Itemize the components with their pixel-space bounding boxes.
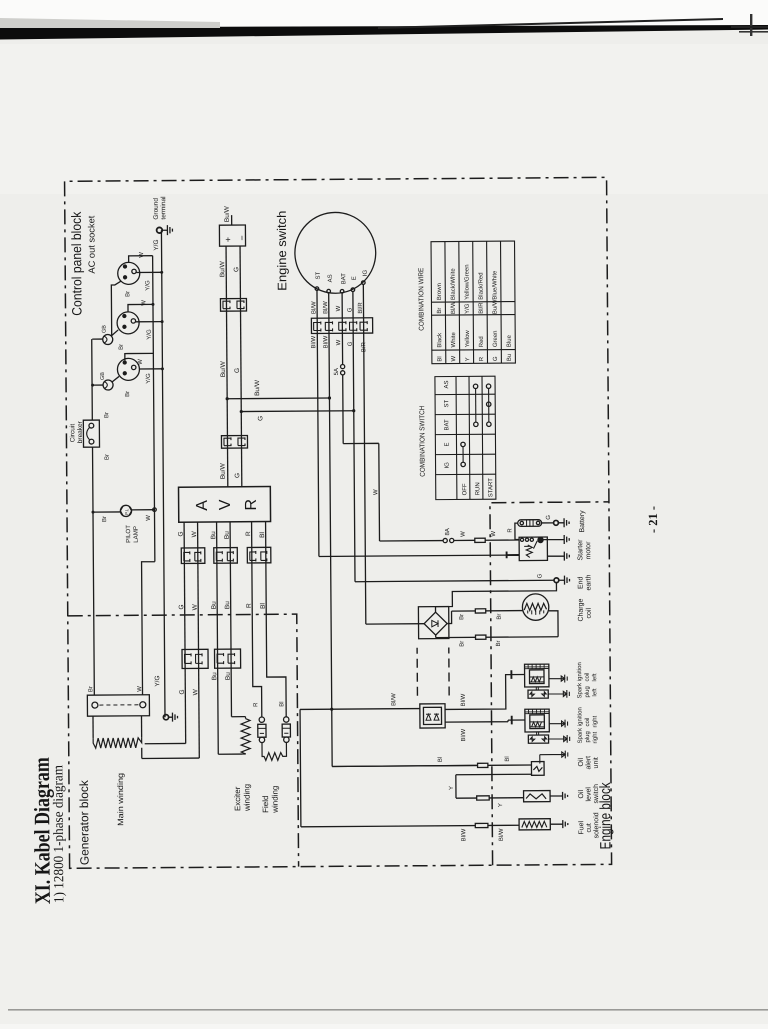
fuse GB a bbox=[103, 334, 113, 344]
wire AS Bl/W bbox=[329, 292, 477, 767]
svg-text:Br: Br bbox=[105, 454, 111, 460]
svg-text:PILOT: PILOT bbox=[125, 525, 132, 543]
end earth terminal bbox=[554, 578, 559, 583]
svg-text:LAMP: LAMP bbox=[133, 526, 140, 543]
oil alert unit bbox=[531, 762, 544, 776]
AVR box bbox=[179, 487, 271, 523]
switch connector bbox=[311, 318, 372, 334]
generator block frame bbox=[68, 614, 299, 868]
svg-text:Br: Br bbox=[437, 308, 443, 314]
wire ignition out 2 bbox=[445, 720, 525, 722]
svg-text:Y/G: Y/G bbox=[145, 280, 151, 291]
wire ignition out 1 bbox=[445, 674, 525, 709]
svg-text:Brown: Brown bbox=[437, 283, 443, 300]
svg-text:unit: unit bbox=[593, 757, 600, 768]
svg-text:W: W bbox=[191, 530, 198, 537]
fuel cut ground bbox=[550, 820, 568, 828]
wire battery to ground bbox=[542, 522, 554, 524]
terminal AS bbox=[327, 289, 331, 293]
svg-text:AC out socket: AC out socket bbox=[86, 215, 96, 274]
wire socket1 Y/G bbox=[136, 271, 161, 273]
wire W bus bbox=[139, 256, 156, 695]
svg-text:Blue: Blue bbox=[507, 334, 513, 347]
svg-text:Bl/W: Bl/W bbox=[461, 728, 467, 741]
svg-text:W: W bbox=[139, 252, 145, 258]
wire AVR out Bl bbox=[266, 521, 287, 716]
circuit breaker CB bbox=[83, 420, 99, 447]
svg-text:1) 12800 1-phase diagram: 1) 12800 1-phase diagram bbox=[51, 765, 67, 903]
wire AVR out R bbox=[252, 522, 262, 717]
svg-text:R: R bbox=[479, 356, 485, 361]
svg-text:IG: IG bbox=[445, 462, 451, 469]
wire main tap W bbox=[142, 747, 200, 758]
svg-text:Bu: Bu bbox=[224, 601, 231, 609]
svg-text:End: End bbox=[577, 576, 584, 589]
svg-text:G: G bbox=[234, 368, 241, 373]
svg-text:Yellow: Yellow bbox=[465, 330, 471, 348]
wire Br trunk bbox=[92, 339, 95, 695]
terminal IG bbox=[362, 281, 366, 285]
wire diamond left bbox=[435, 635, 437, 637]
Y/G generator ground bbox=[163, 715, 168, 720]
main winding slip ring box bbox=[87, 695, 149, 716]
labels spark ignition right bbox=[577, 707, 598, 744]
wire Y/G bus bbox=[161, 230, 165, 717]
svg-text:W: W bbox=[461, 531, 467, 537]
starter armature bbox=[526, 545, 532, 558]
wire ST Bl/W bbox=[317, 289, 507, 556]
starter ground 1 bbox=[543, 535, 569, 544]
svg-text:coil: coil bbox=[585, 672, 591, 681]
wire Br trunk to GB a bbox=[92, 338, 102, 340]
ground ignition coil left bbox=[549, 675, 567, 683]
svg-text:Br: Br bbox=[459, 614, 465, 620]
svg-text:W: W bbox=[138, 359, 144, 365]
svg-text:left: left bbox=[592, 688, 598, 696]
outer block frame bbox=[65, 177, 612, 868]
svg-text:R: R bbox=[253, 702, 259, 707]
svg-text:Br: Br bbox=[496, 640, 502, 646]
svg-text:Bl: Bl bbox=[259, 532, 266, 538]
exciter winding coil bbox=[241, 717, 250, 754]
svg-text:Generator block: Generator block bbox=[77, 779, 92, 865]
svg-text:B/R: B/R bbox=[361, 341, 367, 352]
svg-text:GB: GB bbox=[100, 372, 106, 380]
svg-text:G: G bbox=[178, 531, 185, 536]
ground ignition coil right bbox=[549, 720, 567, 728]
svg-text:Y/G: Y/G bbox=[465, 303, 471, 314]
svg-text:Red: Red bbox=[479, 336, 485, 347]
svg-text:Bu/W: Bu/W bbox=[219, 260, 226, 277]
svg-text:W: W bbox=[192, 688, 199, 695]
oil level switch bbox=[524, 791, 551, 802]
wire G branch bbox=[241, 410, 353, 413]
svg-text:Bl: Bl bbox=[279, 701, 285, 706]
svg-text:Br: Br bbox=[119, 344, 125, 350]
scan line bottom bbox=[8, 1009, 768, 1011]
wire Bu/W branch bbox=[227, 397, 329, 400]
svg-text:G: G bbox=[233, 267, 240, 272]
starter ground 2 bbox=[547, 552, 569, 561]
ground spark plug left bbox=[548, 690, 569, 698]
svg-text:8A: 8A bbox=[445, 528, 451, 535]
fuse fuel wire bbox=[475, 823, 488, 827]
svg-text:Bu/W: Bu/W bbox=[224, 205, 231, 222]
svg-text:Black/Red: Black/Red bbox=[478, 272, 484, 299]
svg-text:W: W bbox=[373, 489, 379, 495]
svg-text:Bl/W: Bl/W bbox=[461, 828, 467, 841]
terminal E bbox=[351, 288, 355, 292]
svg-text:winding: winding bbox=[242, 784, 251, 812]
svg-text:Yellow/Green: Yellow/Green bbox=[464, 264, 470, 300]
svg-text:AS: AS bbox=[328, 274, 334, 282]
svg-text:Y: Y bbox=[498, 803, 504, 807]
wire AVR in Bu/W bbox=[226, 246, 228, 487]
svg-text:W: W bbox=[491, 531, 497, 537]
svg-text:plug: plug bbox=[585, 731, 591, 742]
svg-text:Br: Br bbox=[102, 516, 108, 522]
ignition coil left module bbox=[525, 664, 549, 687]
fuse 5A bbox=[341, 371, 345, 375]
terminal ST bbox=[315, 287, 319, 291]
engine switch circle bbox=[295, 212, 376, 293]
wire battery R to starter bbox=[515, 523, 519, 539]
brush Bl bbox=[283, 717, 288, 722]
diode diamond bbox=[424, 612, 447, 635]
wire IG B/R bbox=[363, 284, 424, 624]
svg-text:Br: Br bbox=[104, 412, 110, 418]
svg-text:winding: winding bbox=[271, 786, 280, 814]
svg-text:COMBINATION WIRE: COMBINATION WIRE bbox=[418, 267, 425, 330]
charge coil bbox=[522, 594, 549, 621]
svg-text:BAT: BAT bbox=[341, 273, 347, 285]
connector row1 block3 bbox=[247, 547, 271, 563]
svg-text:Blue/White: Blue/White bbox=[492, 270, 498, 300]
fuel cut solenoid bbox=[519, 819, 550, 830]
wire charge coil top Br bbox=[452, 610, 523, 613]
svg-text:Bl: Bl bbox=[437, 356, 443, 361]
svg-text:W: W bbox=[336, 305, 342, 311]
svg-text:G: G bbox=[537, 573, 543, 578]
svg-text:G: G bbox=[178, 604, 185, 609]
connector row2 block1 bbox=[182, 649, 208, 668]
switch contacts START bbox=[487, 422, 491, 426]
svg-text:Bu: Bu bbox=[210, 531, 217, 539]
svg-text:V: V bbox=[217, 499, 234, 510]
svg-text:OFF: OFF bbox=[462, 483, 468, 495]
svg-text:Br: Br bbox=[497, 614, 503, 620]
svg-text:W: W bbox=[146, 515, 152, 521]
svg-text:breaker: breaker bbox=[77, 420, 84, 443]
connector row2 block2 bbox=[215, 649, 241, 668]
svg-text:Starter: Starter bbox=[577, 539, 584, 561]
svg-text:Bu: Bu bbox=[211, 672, 218, 680]
svg-text:Field: Field bbox=[261, 795, 270, 812]
wire box to coil bottom bbox=[140, 716, 142, 738]
svg-text:G: G bbox=[546, 515, 552, 520]
svg-text:Y/G: Y/G bbox=[153, 239, 160, 250]
socket 1 bbox=[118, 262, 140, 284]
svg-text:Spark ignition: Spark ignition bbox=[577, 662, 583, 698]
svg-text:BAT: BAT bbox=[444, 419, 450, 431]
svg-text:W: W bbox=[336, 339, 342, 345]
svg-text:Bu/W: Bu/W bbox=[220, 360, 227, 377]
wire DC box stub bbox=[231, 215, 233, 225]
engine block frame bbox=[490, 502, 612, 865]
diode rectifier box bbox=[418, 607, 449, 639]
svg-text:E: E bbox=[444, 442, 450, 446]
svg-text:G: G bbox=[493, 356, 499, 361]
svg-text:Bu/W: Bu/W bbox=[493, 299, 499, 314]
svg-text:Bl: Bl bbox=[260, 603, 267, 609]
svg-text:Circuit: Circuit bbox=[69, 424, 76, 443]
svg-text:Bl/R: Bl/R bbox=[479, 302, 485, 314]
oil alert ground bbox=[540, 751, 568, 764]
svg-text:Bu: Bu bbox=[211, 601, 218, 609]
wire box to coil top bbox=[92, 716, 94, 738]
svg-text:E: E bbox=[352, 276, 358, 280]
svg-text:Oil: Oil bbox=[578, 758, 585, 767]
svg-text:right: right bbox=[593, 731, 599, 743]
wire BAT W bbox=[342, 292, 443, 541]
brush R bbox=[259, 717, 264, 722]
svg-text:Bl/R: Bl/R bbox=[358, 302, 364, 314]
wire AVR out G bbox=[184, 522, 186, 743]
wire lower Br bbox=[436, 636, 558, 639]
svg-text:Black: Black bbox=[437, 332, 443, 348]
svg-text:alert: alert bbox=[585, 756, 592, 770]
svg-text:R: R bbox=[245, 531, 252, 536]
wire E G bbox=[353, 290, 554, 582]
wire ignition unit input bbox=[300, 708, 519, 827]
svg-text:cut: cut bbox=[586, 823, 593, 832]
svg-text:Fuel: Fuel bbox=[578, 820, 585, 834]
svg-text:terminal: terminal bbox=[160, 196, 167, 220]
svg-text:Charge: Charge bbox=[578, 598, 585, 621]
svg-text:switch: switch bbox=[593, 784, 600, 804]
svg-text:−: − bbox=[237, 235, 247, 240]
wire AVR out Bu2 bbox=[230, 522, 242, 717]
fuse GB b bbox=[103, 380, 113, 390]
wire AVR out Bu1 bbox=[217, 522, 243, 754]
svg-text:motor: motor bbox=[585, 541, 592, 560]
ground spark plug right bbox=[549, 735, 570, 743]
wire socket2 Y/G bbox=[136, 321, 162, 323]
svg-text:Black/White: Black/White bbox=[451, 268, 457, 300]
wire diamond right to top Br bbox=[447, 611, 452, 623]
svg-text:Br: Br bbox=[459, 641, 465, 647]
DC output box bbox=[219, 225, 245, 246]
spark plug left bbox=[528, 690, 548, 698]
labels spark ignition left bbox=[577, 662, 598, 699]
svg-text:W: W bbox=[192, 603, 199, 610]
svg-text:A: A bbox=[194, 500, 211, 511]
wire Y oil level bbox=[456, 774, 532, 798]
svg-text:Control panel block: Control panel block bbox=[69, 211, 85, 315]
battery bbox=[518, 520, 542, 527]
ignition diode unit box bbox=[420, 704, 445, 728]
svg-text:Y: Y bbox=[449, 786, 455, 790]
svg-text:P.L: P.L bbox=[124, 508, 129, 515]
svg-text:ST: ST bbox=[444, 400, 450, 408]
svg-text:Y/G: Y/G bbox=[147, 329, 153, 340]
wire main tap G bbox=[145, 742, 186, 744]
wire AVR out W bbox=[198, 522, 200, 758]
svg-text:White: White bbox=[451, 331, 457, 347]
wire socket3 W bbox=[125, 353, 154, 360]
svg-text:Y/G: Y/G bbox=[154, 675, 161, 686]
svg-text:G: G bbox=[234, 473, 241, 478]
starter motor box bbox=[519, 537, 547, 561]
svg-text:G: G bbox=[179, 689, 186, 694]
svg-text:G: G bbox=[348, 341, 354, 346]
svg-text:Bl/W: Bl/W bbox=[323, 301, 329, 314]
fuse 8A bbox=[443, 538, 447, 542]
table combination switch bbox=[435, 376, 496, 499]
svg-text:R: R bbox=[246, 603, 253, 608]
svg-text:Y/G: Y/G bbox=[146, 373, 152, 384]
connector row1 block1 bbox=[181, 548, 205, 564]
field winding coil bbox=[262, 742, 287, 760]
connector pair on AVR inputs bbox=[220, 299, 246, 312]
svg-text:coil: coil bbox=[585, 717, 591, 726]
svg-text:- 21 -: - 21 - bbox=[646, 506, 660, 533]
svg-text:R: R bbox=[243, 499, 260, 511]
svg-text:Bl/W: Bl/W bbox=[391, 693, 397, 706]
terminal BAT bbox=[340, 289, 344, 293]
svg-text:Green: Green bbox=[493, 330, 499, 347]
svg-text:Ground: Ground bbox=[153, 198, 160, 220]
main winding coil bbox=[93, 738, 142, 748]
svg-text:Bu: Bu bbox=[225, 672, 232, 680]
svg-text:Bl/W: Bl/W bbox=[461, 693, 467, 706]
svg-text:solenoid: solenoid bbox=[593, 812, 600, 838]
connector pair 2 on AVR inputs bbox=[221, 435, 247, 448]
svg-text:Y: Y bbox=[465, 357, 471, 361]
svg-text:5A: 5A bbox=[334, 368, 340, 375]
svg-text:START: START bbox=[488, 478, 494, 497]
svg-text:G: G bbox=[347, 307, 353, 312]
svg-text:Bl/W: Bl/W bbox=[311, 335, 317, 348]
socket 3 bbox=[117, 358, 139, 380]
wire diamond top to end earth bbox=[435, 583, 556, 612]
wire socket3 Y/G bbox=[139, 368, 162, 370]
svg-text:RUN: RUN bbox=[475, 482, 481, 495]
svg-text:AS: AS bbox=[444, 380, 450, 388]
wire AVR in G bbox=[240, 246, 242, 487]
svg-text:right: right bbox=[592, 715, 598, 727]
svg-text:coil: coil bbox=[586, 608, 593, 619]
oil level ground bbox=[550, 792, 568, 800]
svg-text:level: level bbox=[586, 787, 593, 802]
svg-text:R: R bbox=[508, 528, 514, 533]
switch contacts OFF bbox=[461, 462, 465, 466]
ground terminal bbox=[157, 227, 163, 233]
svg-text:Bl/W: Bl/W bbox=[499, 828, 505, 841]
svg-text:Bl: Bl bbox=[438, 757, 444, 762]
svg-text:Bl: Bl bbox=[505, 756, 511, 761]
scan streak top bbox=[0, 25, 768, 40]
scan streak thin line bbox=[378, 18, 723, 29]
svg-text:plug: plug bbox=[585, 686, 591, 697]
ignition coil right module bbox=[525, 709, 549, 732]
svg-text:W: W bbox=[141, 300, 147, 306]
spark plug right bbox=[528, 735, 548, 743]
svg-text:earth: earth bbox=[585, 574, 592, 590]
svg-text:Bu/W: Bu/W bbox=[254, 379, 261, 396]
wire socket2 W bbox=[128, 304, 153, 311]
svg-text:Br: Br bbox=[125, 391, 131, 397]
svg-text:COMBINATION SWITCH: COMBINATION SWITCH bbox=[419, 406, 427, 477]
svg-text:Oil: Oil bbox=[578, 790, 585, 799]
svg-text:W: W bbox=[451, 355, 457, 361]
svg-text:Bu/W: Bu/W bbox=[220, 462, 227, 479]
svg-text:Exciter: Exciter bbox=[233, 786, 242, 811]
svg-text:Engine switch: Engine switch bbox=[275, 211, 290, 291]
socket 2 bbox=[117, 312, 139, 334]
svg-text:G: G bbox=[257, 416, 264, 421]
svg-text:IG: IG bbox=[363, 269, 369, 276]
svg-text:Battery: Battery bbox=[579, 510, 586, 533]
fuse W wire bbox=[475, 538, 485, 542]
svg-text:Br: Br bbox=[88, 686, 94, 692]
connector row1 block2 bbox=[214, 548, 238, 564]
svg-text:W: W bbox=[137, 686, 143, 692]
svg-text:Main winding: Main winding bbox=[116, 773, 125, 826]
wire Bl to oil alert bbox=[332, 765, 531, 766]
svg-text:Bl/W: Bl/W bbox=[451, 301, 457, 314]
svg-text:Br: Br bbox=[125, 291, 131, 297]
pilot lamp PL bbox=[93, 510, 155, 512]
svg-text:ST: ST bbox=[316, 271, 322, 279]
svg-text:Bl/W: Bl/W bbox=[311, 301, 317, 314]
switch contacts RUN bbox=[474, 422, 478, 426]
table combination wire bbox=[431, 241, 515, 364]
svg-text:Bl/W: Bl/W bbox=[323, 335, 329, 348]
dashed leads ignition bbox=[416, 648, 418, 696]
svg-text:Bu: Bu bbox=[224, 531, 231, 539]
svg-text:GB: GB bbox=[102, 325, 108, 333]
wire socket1 W bbox=[129, 256, 153, 263]
wire socket1 Br bbox=[111, 281, 121, 336]
svg-text:+: + bbox=[223, 237, 233, 242]
svg-text:Spark ignition: Spark ignition bbox=[577, 707, 583, 743]
svg-text:left: left bbox=[592, 673, 598, 681]
wire charge coil bottom bbox=[549, 611, 558, 637]
starter solenoid lead bbox=[507, 551, 520, 558]
svg-text:Bu: Bu bbox=[507, 354, 513, 361]
